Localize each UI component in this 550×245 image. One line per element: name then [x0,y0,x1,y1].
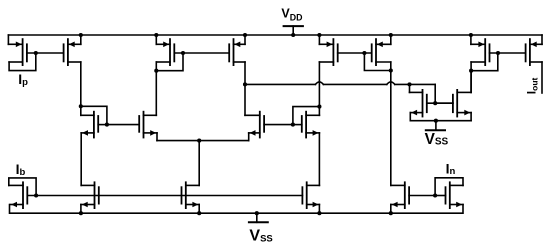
wire Mb diode loop [9,178,36,196]
wire M12 source down to Mb4 [318,133,320,186]
wire M4 drain down to M11 [244,62,246,115]
transistor M11 [245,112,293,138]
label In [446,160,456,176]
wire M7 drain down to M14 [470,62,472,92]
wire M5 source from rail [318,35,320,44]
node VSS tick tee [434,119,438,123]
transistor M9 [81,112,107,138]
transistor M12 [293,112,320,138]
power rail VSS [10,205,464,214]
wire M8 source from rail corner [541,35,543,44]
transistor M1 [8,39,63,65]
node M3 source on rail [154,33,158,37]
wire M13 drain up to bias net [409,84,411,92]
transistor Mb4 [302,182,319,208]
node Mb gate junction [34,193,38,197]
node M4 drain tee [243,82,247,86]
node M5 source on rail [317,33,321,37]
transistor M8 [526,39,542,65]
node M6 gate junction [362,51,366,55]
transistor M13 [410,90,453,117]
svg-text:VSS: VSS [425,131,449,148]
transistor Mb2 [81,182,99,208]
node M13-M14 gate junction [433,101,437,105]
wire M5 drain down to M12 [318,62,320,115]
transistor Mb5 [391,182,435,208]
wire Mb4 source down [318,205,320,214]
wire Mb2 source down [80,205,82,214]
wire M2 drain down to M9 [80,62,82,115]
wire M4 source from rail [244,35,246,44]
VSS supply symbol middle [425,121,449,148]
node M7 gate junction [496,51,500,55]
wire M14 source down [470,113,472,121]
transistor M4 [229,39,245,65]
node Mb3 source on rail [197,211,201,215]
wire M3 drain down to M10 [155,62,157,115]
svg-text:In: In [446,160,456,176]
transistor Mb [9,182,28,208]
wire M10 source down to bus [156,133,158,141]
wire Mb3 source down [198,205,200,214]
wire M11 source down to bus [248,133,250,141]
transistor M6 [372,39,391,65]
wire M6 diode loop to gate [364,53,390,71]
transistor M14 [435,90,471,117]
VSS supply symbol bottom [249,213,273,245]
node M1 gate junction [34,51,38,55]
node M7 drain tee [469,69,473,73]
wire bottom gate bus [27,195,302,197]
wire M7 source from rail [470,35,472,44]
wire M13 source down to vss wire [409,113,411,121]
node M3 drain tee [154,69,158,73]
node Mb6 gate junction [433,193,437,197]
transistor Mb3 [182,182,200,208]
power rail VDD [8,34,542,36]
label Ip [18,71,28,88]
node Mb2 source on rail [79,211,83,215]
wire Mb6 diode loop [435,178,463,196]
node Mb4 source on rail [317,211,321,215]
node VSS tick on rail [255,211,259,215]
wire M14 drain up to M7 [470,71,472,93]
wire bias net with crossovers [245,82,435,103]
node Mb5 source on rail [389,211,393,215]
svg-text:VSS: VSS [249,228,272,245]
wire M8 drain to output stub [541,62,543,93]
wire M9 source down to Mb2 [80,133,82,186]
wire M12 gate feed [293,107,320,125]
transistor M3 [156,39,229,65]
wire M9 gate feed [81,106,107,124]
wire M10-M11 source bus [157,140,249,142]
transistor M10 [107,112,157,138]
node M7 source on rail [469,33,473,37]
transistor M5 [319,39,371,65]
wire M13-M14 source rail [410,120,471,122]
wire M1 drain-gate diode loop [9,53,36,71]
wire M1 source from rail [7,35,9,44]
svg-text:Ip: Ip [18,71,28,88]
transistor M7 [471,39,526,65]
wire M2 source from rail [80,35,82,44]
node source-bus tee [197,139,201,143]
node M2 source on rail [79,33,83,37]
node M3 gate junction [181,51,185,55]
wire M6 source from rail [390,35,392,44]
node VDD tick junction [291,33,295,37]
svg-text:Ib: Ib [16,161,26,178]
node M9 drain tee [79,104,83,108]
node M5-M12 gate tap tee [317,105,321,109]
node M9 gate junction [105,123,109,127]
wire M7 diode loop to gate [471,53,498,71]
transistor Mb6 [435,182,463,208]
label Iout [524,77,539,94]
node M13 drain tee [407,82,411,86]
wire M6 drain down to Mb5 [390,62,392,185]
VDD supply symbol [281,6,303,35]
svg-text:Iout: Iout [524,77,539,94]
wire M3 diode loop to gate [156,53,183,71]
transistor M2 [64,39,81,65]
node M4 source on rail [243,33,247,37]
node M12 gate junction [291,123,295,127]
label Ib [16,161,26,178]
wire M3 source from rail [155,35,157,44]
svg-text:VDD: VDD [281,6,302,22]
node M6 source on rail [389,33,393,37]
wire node down to Mb3 drain [198,141,200,186]
wire Mb5 source down [390,205,392,214]
node M6 drain tee [389,68,393,72]
